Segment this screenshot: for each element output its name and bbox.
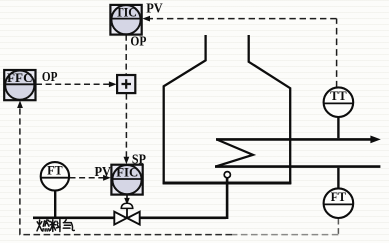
svg-text:PV: PV [146, 1, 163, 16]
controller FIC [111, 165, 142, 195]
wire: FT1 PV to FIC [70, 177, 107, 179]
label fuel gas 燃料气 (drawn strokes) [37, 220, 74, 232]
coil zigzag inside furnace [216, 139, 254, 166]
transmitter TT [324, 87, 354, 117]
furnace outline [164, 35, 291, 183]
svg-text:FFC: FFC [7, 71, 33, 85]
arrowhead into FIC top (SP) [124, 157, 130, 165]
process line: bottom coil inlet [215, 165, 380, 168]
svg-text:TIC: TIC [116, 5, 138, 20]
qi4 气 [65, 220, 67, 222]
liao4 料 [50, 220, 56, 232]
arrowhead into summer left [109, 81, 117, 87]
arrowhead into FIC left (PV) [103, 175, 111, 181]
svg-text:OP: OP [42, 69, 58, 84]
summer block + [117, 75, 135, 93]
control valve body [114, 212, 139, 225]
valve stem [126, 209, 128, 217]
ran2 燃 [37, 220, 40, 231]
wire: FFC OP to summer [36, 83, 112, 85]
valve actuator dome [121, 203, 133, 208]
transmitter FT2 (process) [324, 188, 354, 218]
burner nozzle circle [224, 172, 230, 178]
svg-text:SP: SP [132, 151, 146, 166]
controller TIC [110, 5, 141, 35]
FT1 stem to pipe [54, 190, 56, 216]
fuel gas pipe left segment [33, 217, 115, 220]
arrowhead process outlet [370, 136, 380, 144]
svg-text:OP: OP [130, 33, 146, 48]
wire: TIC OP down to summer [125, 35, 127, 75]
svg-text:PV: PV [95, 164, 112, 179]
controller FFC [4, 70, 35, 100]
transmitter FT1 (fuel) [41, 162, 69, 190]
svg-text:FT: FT [47, 163, 63, 178]
svg-text:FIC: FIC [116, 165, 138, 180]
TT stem to process line [337, 117, 339, 138]
wire: left vertical signal run up to FFC [19, 104, 21, 235]
wire: signal FT2 to bottom dash run [337, 219, 339, 234]
wire: summer to FIC SP [125, 94, 127, 160]
svg-text:FT: FT [331, 189, 347, 204]
FIC output arrow to valve [126, 195, 128, 201]
process line: top coil outlet with arrow [216, 138, 372, 141]
arrowhead into FFC bottom [17, 101, 23, 109]
arrowhead into TIC right (PV) [142, 16, 150, 22]
wire: TIC PV from TT corner run [336, 19, 338, 88]
svg-text:TT: TT [330, 88, 347, 103]
wire: bottom horizontal signal run [232, 234, 338, 236]
FT2 stem from process line [337, 168, 339, 189]
fuel gas pipe right segment up to burner [140, 178, 228, 219]
